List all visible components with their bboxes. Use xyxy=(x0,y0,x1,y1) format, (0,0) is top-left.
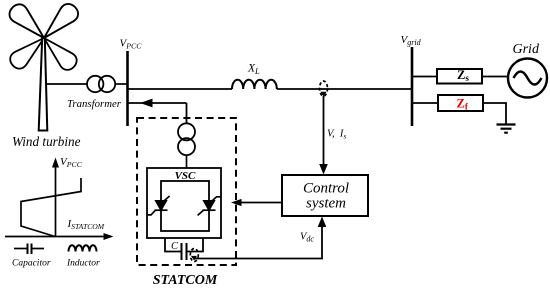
VSC box xyxy=(147,168,221,238)
STATCOM dashed box xyxy=(137,118,236,265)
STATCOM injection wire with left arrowhead xyxy=(129,102,187,104)
wire Zf to ground xyxy=(483,103,506,124)
wire grid bus to Zs xyxy=(412,76,437,78)
wire Vdc to control system with up arrowhead xyxy=(194,227,322,259)
transformer T1 xyxy=(87,76,103,92)
impedance Zf box xyxy=(438,95,483,111)
svg-text:system: system xyxy=(306,196,346,212)
svg-text:VSC: VSC xyxy=(175,170,196,182)
control system box xyxy=(282,175,368,216)
inductor XL xyxy=(232,80,277,89)
svg-text:C: C xyxy=(171,241,179,252)
inductor legend symbol xyxy=(69,245,97,251)
valve Q2 (right) xyxy=(198,197,221,216)
wire T2 to VSC xyxy=(186,155,188,168)
wire T1 to PCC bus xyxy=(115,83,127,85)
valve Q1 (left) xyxy=(147,196,170,215)
VI graph y-axis xyxy=(55,166,57,237)
main wire PCC bus to inductor xyxy=(128,88,233,90)
wire tower to transformer T1 xyxy=(46,83,87,85)
measurement point ellipse on line xyxy=(320,81,328,96)
svg-text:Capacitor: Capacitor xyxy=(12,259,51,269)
DC link wires xyxy=(165,238,181,252)
VI graph x-axis xyxy=(5,236,105,238)
bus V_PCC xyxy=(126,51,129,126)
capacitor legend symbol xyxy=(14,248,27,250)
svg-text:Control: Control xyxy=(303,181,349,197)
measurement ellipse on capacitor xyxy=(190,249,198,262)
wire grid bus to Zf xyxy=(412,102,438,104)
main wire inductor to grid bus xyxy=(277,88,412,90)
VI characteristic curve xyxy=(21,178,81,237)
VSC bridge inner box xyxy=(161,181,209,231)
svg-text:Grid: Grid xyxy=(513,42,540,57)
svg-text:Inductor: Inductor xyxy=(66,259,100,269)
grid AC source xyxy=(508,59,547,98)
ground xyxy=(497,125,516,133)
arrow control to VSC xyxy=(240,202,282,204)
wind turbine tower xyxy=(39,38,48,131)
wire Zs to grid source xyxy=(482,76,507,78)
capacitor Cdc plates xyxy=(181,243,183,260)
wire V,Is measurement down to control with down arrowhead xyxy=(323,96,325,165)
bus V_grid xyxy=(411,47,414,126)
svg-text:Transformer: Transformer xyxy=(67,98,122,110)
impedance Zs box xyxy=(437,69,482,84)
transformer T2 xyxy=(178,123,195,140)
svg-text:STATCOM: STATCOM xyxy=(153,273,218,288)
wind turbine blades xyxy=(6,0,82,73)
svg-text:Wind turbine: Wind turbine xyxy=(12,134,81,149)
